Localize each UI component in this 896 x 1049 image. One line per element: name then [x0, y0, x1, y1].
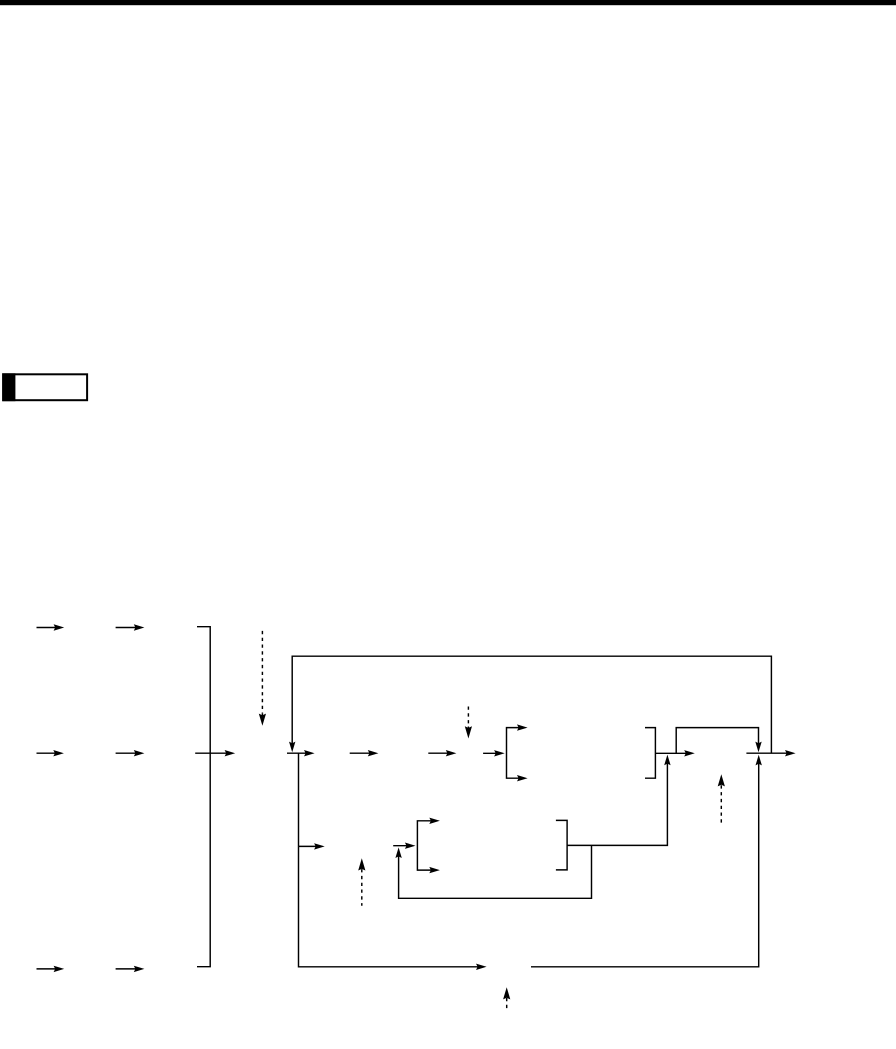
right square bracket on main line: [645, 728, 655, 779]
left square bracket on main line: [507, 728, 520, 779]
bypass loop arrowhead down: [755, 742, 761, 753]
bottom feedback wire right with riser up: [531, 759, 759, 967]
riser arrowhead up into main line: [664, 755, 670, 766]
output wire with final arrow: [746, 752, 792, 754]
dashed control arrow pointing down mid path: [467, 707, 469, 727]
figure label box black tab: [2, 373, 15, 401]
main path arrow 2: [350, 752, 375, 754]
input arrow row2 col2: [116, 752, 141, 754]
big right bracket grouping inputs: [197, 627, 210, 967]
dashed control arrow pointing down at main junction: [261, 631, 263, 714]
input arrow row3 col2: [116, 968, 141, 970]
bypass loop wire over output stage: [676, 728, 758, 754]
input arrow row2 col1: [37, 752, 60, 754]
dashed control arrow pointing up bottom row: [506, 991, 508, 1011]
branch wire down from main junction: [298, 753, 300, 846]
inner loop arrowhead up: [395, 847, 401, 858]
middle wire to riser up to main line: [567, 759, 667, 846]
input arrow row1 col2: [116, 627, 141, 629]
bottom riser arrowhead up into junction: [756, 755, 762, 766]
top black header bar: [0, 0, 896, 5]
top feedback loop wire: [292, 656, 771, 752]
wire after right bracket with arrow: [655, 752, 691, 754]
input arrow row1 col1: [37, 627, 61, 629]
middle left square bracket: [417, 821, 432, 870]
middle right square bracket: [556, 820, 567, 870]
middle row arrow into bracket: [393, 845, 411, 847]
arrow crossing big bracket into main path: [195, 752, 231, 754]
branch arrow toward middle row: [299, 845, 321, 847]
bottom feedback wire left with arrow: [299, 846, 483, 966]
dashed control arrow pointing up middle row: [361, 862, 363, 905]
top loop arrowhead into junction: [289, 742, 295, 753]
main path arrow 3: [428, 752, 452, 754]
dashed control arrow pointing up at output stage: [720, 779, 722, 824]
junction node line with output arrow: [287, 752, 311, 754]
figure label box outline: [3, 374, 87, 400]
middle inner feedback loop wire: [399, 845, 592, 898]
input arrow row3 col1: [37, 968, 61, 970]
main path arrow 4 into left bracket: [483, 752, 501, 754]
